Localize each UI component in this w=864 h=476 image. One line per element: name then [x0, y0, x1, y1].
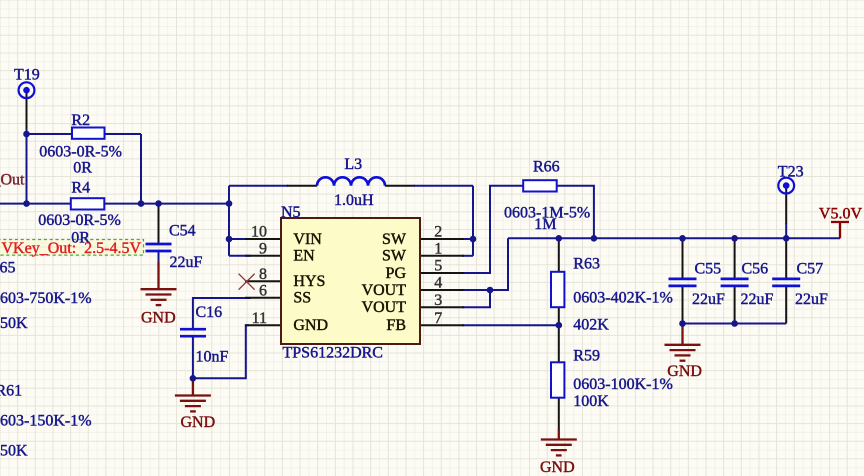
power port V5.0V	[831, 222, 849, 238]
capacitor C57	[772, 279, 800, 286]
svg-text:C54: C54	[169, 223, 196, 240]
svg-text:4: 4	[434, 275, 442, 292]
node: C56 on rail	[731, 235, 738, 242]
wire: FB pin to divider	[462, 324, 559, 326]
svg-text:R61: R61	[0, 383, 22, 400]
resistor R66	[523, 180, 557, 191]
svg-text:1: 1	[434, 240, 442, 257]
wire: vertical at VIN/EN column	[228, 186, 230, 256]
wire: VOUT junction up to rail	[490, 238, 508, 290]
resistor R63	[551, 272, 564, 307]
svg-text:C56: C56	[742, 261, 769, 278]
wire: GND pin11 down and left to C16	[193, 325, 249, 378]
svg-text:FB: FB	[386, 317, 406, 334]
wire: C54 top connection	[158, 204, 160, 244]
node: R63 top on rail	[556, 235, 563, 242]
svg-text:22uF: 22uF	[170, 254, 203, 271]
node: C55 on rail	[679, 235, 686, 242]
svg-text:T19: T19	[14, 67, 40, 84]
pin 9 EN stub	[245, 255, 281, 257]
no-connect X on HYS pin	[239, 274, 255, 290]
node: SW pin tee	[470, 236, 477, 243]
svg-text:C57: C57	[797, 261, 824, 278]
pin 1 SW stub	[420, 255, 464, 257]
wire: capacitor ground bus	[683, 323, 787, 325]
svg-text:22uF: 22uF	[741, 291, 774, 308]
node: C54 on main	[155, 200, 162, 207]
wire: T23 vertical drop	[785, 188, 787, 225]
node: VOUT junction	[487, 287, 494, 294]
svg-text:10: 10	[251, 224, 267, 241]
svg-text:V5.0V: V5.0V	[819, 205, 863, 222]
svg-text:100K: 100K	[573, 393, 609, 410]
pin 2 SW stub	[420, 238, 464, 240]
svg-text:3: 3	[434, 292, 442, 309]
svg-text:TPS61232DRC: TPS61232DRC	[283, 345, 383, 362]
svg-text:VIN: VIN	[293, 231, 322, 248]
svg-text:R65: R65	[0, 260, 15, 277]
svg-text:_Out: _Out	[0, 171, 25, 188]
svg-text:0603-750K-1%: 0603-750K-1%	[0, 290, 92, 307]
wire: PG pin to R66 left	[462, 186, 523, 273]
wire: VOUT pin4 connection	[462, 289, 490, 291]
wire: C16 bottom vertical	[192, 337, 194, 378]
test point T23	[778, 178, 794, 194]
svg-text:10nF: 10nF	[196, 349, 229, 366]
ground symbol R59	[541, 430, 577, 456]
node: C16 ground junction	[190, 375, 197, 382]
svg-text:VKey_Out: 2.5-4.5V: VKey_Out: 2.5-4.5V	[2, 240, 142, 257]
svg-text:8: 8	[259, 266, 267, 283]
wire: SS pin to C16	[193, 298, 251, 329]
wire: C55 bottom connection	[682, 287, 684, 324]
IC U=N5 TPS61232DRC body	[281, 218, 420, 344]
svg-text:EN: EN	[293, 248, 315, 265]
wire: C56 top connection	[734, 238, 736, 278]
svg-text:C55: C55	[695, 261, 722, 278]
ground symbol C55	[665, 324, 701, 361]
wire: V5.0V output rail	[508, 237, 840, 239]
wire: main VKey_Out horizontal bus	[0, 203, 229, 205]
wire: R2 right vertical drop	[140, 134, 142, 205]
svg-text:0603-402K-1%: 0603-402K-1%	[573, 289, 673, 306]
svg-text:VOUT: VOUT	[362, 299, 407, 316]
wire: T19 vertical drop	[26, 92, 28, 130]
svg-text:R2: R2	[71, 112, 90, 129]
svg-text:402K: 402K	[573, 316, 609, 333]
wire: C57 bottom connection	[785, 287, 787, 324]
node: R2 branch junction	[23, 131, 30, 138]
node: C56 bottom bus	[731, 320, 738, 327]
svg-text:L3: L3	[344, 156, 362, 173]
capacitor C55	[669, 279, 697, 286]
svg-text:GND: GND	[540, 459, 575, 476]
node: main to VIN column	[226, 200, 233, 207]
pin 8 HYS stub	[245, 280, 281, 282]
svg-text:N5: N5	[281, 204, 301, 221]
wire: C55 top connection	[682, 238, 684, 278]
wire: L3 left lead	[229, 185, 288, 187]
svg-text:1.0uH: 1.0uH	[334, 192, 374, 209]
svg-text:0R: 0R	[73, 160, 92, 177]
wire: R59 bottom to ground	[558, 398, 560, 431]
svg-text:11: 11	[252, 310, 267, 327]
pin 3 VOUT stub	[420, 306, 464, 308]
svg-text:GND: GND	[293, 317, 328, 334]
svg-text:0603-100K-1%: 0603-100K-1%	[573, 376, 673, 393]
svg-text:SS: SS	[293, 290, 311, 307]
wire: SW pin1 connection	[462, 255, 473, 257]
svg-text:C16: C16	[196, 304, 223, 321]
resistor R59	[551, 362, 564, 397]
wire: R2 branch horizontal	[27, 133, 142, 135]
node: R2 right on main	[138, 200, 145, 207]
inductor L3 coil	[317, 177, 385, 186]
svg-text:2: 2	[434, 224, 442, 241]
node: C55 bottom bus	[679, 320, 686, 327]
node: T23/C57 on rail	[783, 235, 790, 242]
svg-text:1M: 1M	[534, 216, 556, 233]
wire: L3 right lead	[385, 185, 415, 187]
svg-text:22uF: 22uF	[692, 291, 725, 308]
pin 10 VIN stub	[245, 238, 281, 240]
wire: R66 right to output rail	[557, 186, 594, 239]
pin 5 PG stub	[420, 272, 464, 274]
pin 11 GND stub	[245, 324, 281, 326]
ground symbol C16	[175, 378, 211, 411]
svg-text:R59: R59	[573, 347, 600, 364]
svg-text:HYS: HYS	[293, 273, 325, 290]
node: FB divider junction	[556, 322, 563, 329]
svg-text:R4: R4	[71, 179, 90, 196]
node: T19/main junction	[23, 200, 30, 207]
svg-text:150K: 150K	[0, 443, 28, 460]
resistor R2	[72, 128, 105, 139]
node: VIN pin tee	[226, 236, 233, 243]
ground symbol C54	[141, 262, 177, 305]
wire: C56 bottom connection	[734, 287, 736, 324]
svg-text:9: 9	[259, 240, 267, 257]
wire: VOUT pin3 up to pin4	[462, 290, 490, 307]
wire: EN pin connection	[229, 255, 251, 257]
capacitor C56	[721, 279, 749, 286]
svg-text:750K: 750K	[0, 315, 28, 332]
capacitor C16	[180, 329, 206, 336]
svg-text:VOUT: VOUT	[362, 282, 407, 299]
svg-text:GND: GND	[181, 414, 216, 431]
svg-text:0603-150K-1%: 0603-150K-1%	[0, 413, 92, 430]
svg-text:GND: GND	[667, 363, 702, 380]
svg-text:R66: R66	[533, 159, 560, 176]
pin 7 FB stub	[420, 324, 464, 326]
svg-text:0603-0R-5%: 0603-0R-5%	[38, 212, 121, 229]
pin 6 SS stub	[245, 297, 281, 299]
svg-text:5: 5	[434, 258, 442, 275]
svg-text:GND: GND	[141, 310, 176, 327]
capacitor C54	[146, 244, 172, 251]
svg-text:0603-0R-5%: 0603-0R-5%	[39, 144, 122, 161]
wire: R63 bottom to R59 top	[558, 307, 560, 363]
directive box VKey_Out	[0, 240, 144, 256]
pin 4 VOUT stub	[420, 289, 464, 291]
svg-text:R63: R63	[573, 256, 600, 273]
wire: C54 below plate	[158, 251, 160, 263]
svg-text:7: 7	[434, 310, 442, 327]
wire: SW column vertical	[472, 186, 474, 256]
wire: SW pin2 connection	[462, 238, 473, 240]
wire: R63 top connection	[558, 238, 560, 272]
svg-text:6: 6	[259, 282, 267, 299]
node: R66 right on rail	[591, 235, 598, 242]
svg-text:PG: PG	[386, 265, 407, 282]
svg-text:SW: SW	[382, 231, 407, 248]
resistor R4	[71, 198, 105, 209]
svg-text:SW: SW	[382, 248, 407, 265]
test point T19	[19, 82, 35, 98]
svg-text:22uF: 22uF	[795, 291, 828, 308]
svg-text:T23: T23	[778, 163, 804, 180]
wire: C57 top connection	[785, 238, 787, 278]
wire: VIN pin connection	[229, 238, 251, 240]
